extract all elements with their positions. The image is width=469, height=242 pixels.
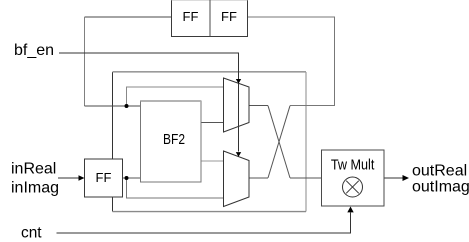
svg-text:outReal: outReal — [412, 163, 467, 180]
svg-text:cnt: cnt — [21, 225, 42, 242]
svg-text:BF2: BF2 — [163, 131, 185, 148]
svg-text:inImag: inImag — [11, 180, 59, 197]
svg-text:bf_en: bf_en — [14, 42, 54, 59]
svg-text:outImag: outImag — [412, 179, 469, 196]
svg-text:inReal: inReal — [11, 161, 56, 178]
svg-text:Tw Mult: Tw Mult — [331, 157, 375, 174]
svg-text:FF: FF — [221, 9, 237, 24]
svg-text:FF: FF — [96, 170, 112, 185]
svg-text:FF: FF — [183, 9, 199, 24]
